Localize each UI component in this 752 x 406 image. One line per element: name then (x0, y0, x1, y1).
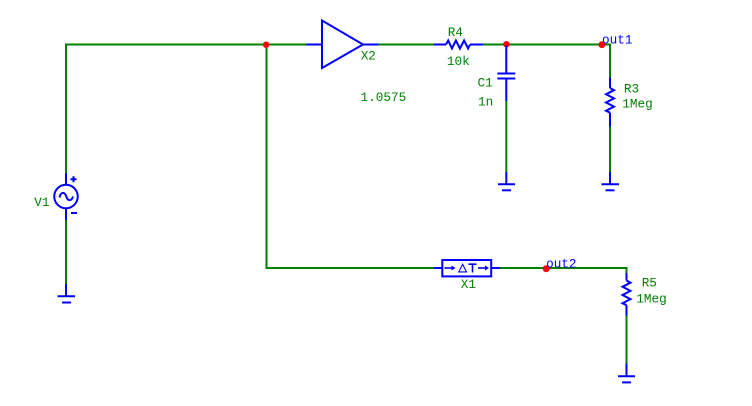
ground under C1 (498, 172, 515, 190)
ground under V1 (58, 284, 76, 303)
svg-text:out1: out1 (602, 33, 632, 48)
wire R5 bottom to ground (626, 316, 628, 364)
junction node dot R4/C1 (503, 41, 509, 47)
svg-text:R3: R3 (624, 82, 639, 97)
capacitor C1 (497, 46, 515, 102)
wire V1 bottom to ground (65, 220, 67, 284)
svg-text:1Meg: 1Meg (622, 97, 652, 112)
ground under R5 (618, 364, 635, 383)
wire C1 bottom to ground (505, 101, 507, 172)
svg-text:1n: 1n (478, 94, 493, 109)
svg-text:R5: R5 (642, 275, 657, 290)
svg-text:out2: out2 (546, 256, 576, 271)
svg-text:10k: 10k (447, 54, 470, 69)
wire X1 output to out2 corner down to R5 (500, 268, 627, 273)
node out2 dot (543, 265, 550, 272)
voltage source V1 (54, 173, 78, 220)
wire R3 bottom to ground (609, 127, 611, 173)
wire R4 to out1 corner down to R3 (483, 45, 610, 78)
svg-text:X2: X2 (361, 48, 376, 63)
buffer X2 (307, 21, 379, 69)
svg-text:X1: X1 (461, 277, 476, 292)
svg-text:1Meg: 1Meg (636, 291, 666, 306)
resistor R3 (606, 78, 614, 127)
wire X2 output to R4 (379, 44, 435, 46)
svg-text:C1: C1 (478, 76, 493, 91)
delay block X1 (434, 260, 500, 276)
node out1 dot (599, 41, 606, 48)
svg-text:R4: R4 (448, 25, 463, 40)
resistor R5 (623, 273, 631, 316)
wire top rail from V1 to X2 input (66, 45, 307, 174)
svg-text:1.0575: 1.0575 (361, 90, 407, 105)
ground under R3 (602, 172, 620, 190)
svg-text:V1: V1 (34, 195, 49, 210)
resistor R4 (434, 41, 483, 49)
junction node dot at buffer input (263, 42, 269, 48)
wire vertical drop and bottom rail to X1 (267, 45, 435, 269)
